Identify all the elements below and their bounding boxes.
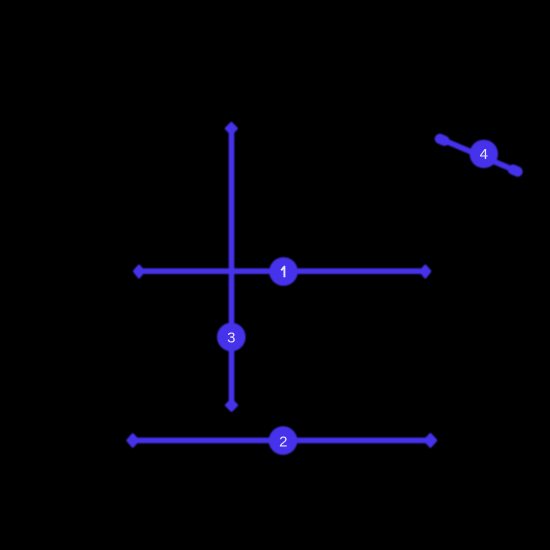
svg-text:4: 4 <box>480 146 488 163</box>
svg-text:2: 2 <box>279 433 287 450</box>
svg-text:3: 3 <box>227 330 235 347</box>
